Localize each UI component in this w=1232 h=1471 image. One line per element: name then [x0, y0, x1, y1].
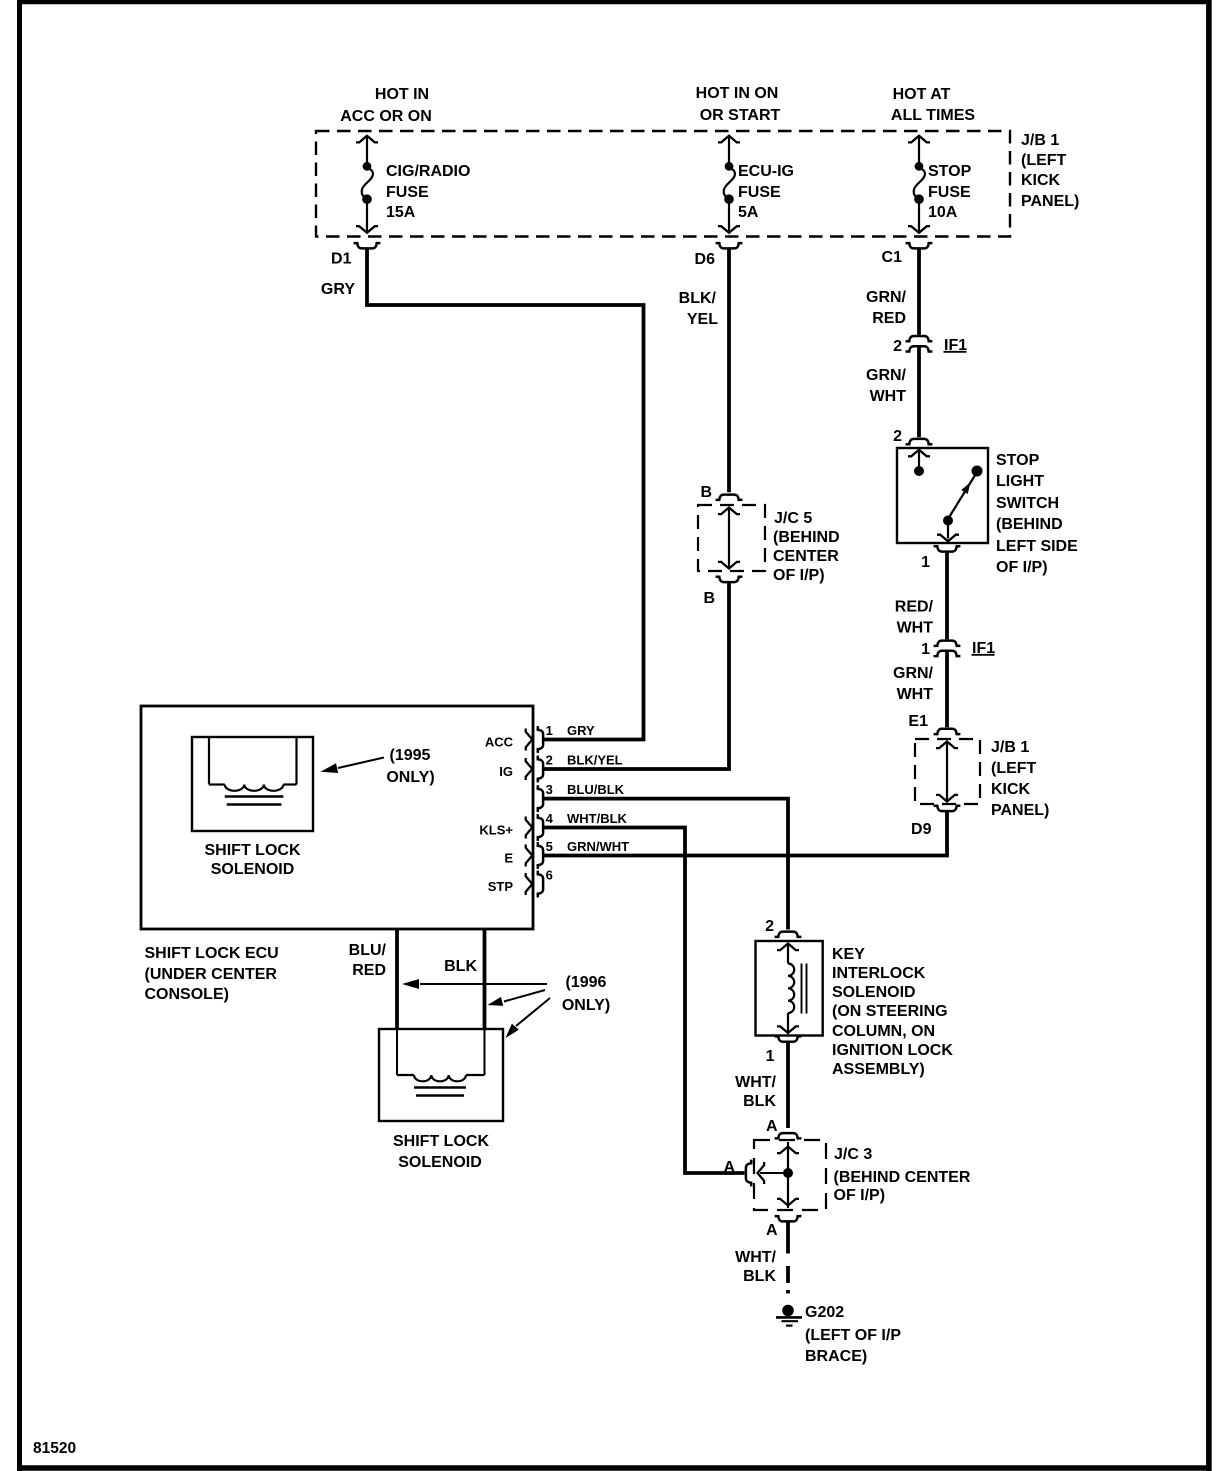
connector 2 key interlock — [775, 932, 802, 937]
svg-text:HOT AT: HOT AT — [893, 86, 951, 103]
svg-text:(LEFT: (LEFT — [1021, 152, 1067, 169]
label WHT/BLK upper — [735, 1074, 776, 1110]
svg-text:4: 4 — [546, 811, 554, 826]
svg-text:BLK: BLK — [743, 1093, 776, 1110]
svg-text:IG: IG — [499, 764, 513, 779]
label STOP LIGHT SWITCH (BEHIND LEFT SIDE OF I/P) — [996, 452, 1078, 576]
svg-text:KLS+: KLS+ — [479, 823, 513, 838]
svg-text:YEL: YEL — [687, 311, 718, 328]
ECU pin 5 — [504, 839, 629, 869]
note (1995 ONLY) with arrow — [319, 747, 434, 786]
shift lock solenoid (1995) — [192, 737, 313, 831]
svg-text:GRN/: GRN/ — [866, 367, 907, 384]
svg-text:(BEHIND: (BEHIND — [773, 529, 840, 546]
wire GRN/WHT D9 to ECU pin 5 — [544, 812, 948, 856]
connector A top of J/C 3 — [775, 1133, 802, 1138]
svg-text:(1996: (1996 — [566, 974, 607, 991]
svg-text:GRY: GRY — [321, 281, 355, 298]
junction connector J/C 5 — [698, 505, 765, 571]
svg-text:81520: 81520 — [33, 1440, 76, 1457]
svg-text:KICK: KICK — [991, 781, 1031, 798]
svg-text:BLK: BLK — [444, 958, 477, 975]
svg-text:STP: STP — [488, 879, 514, 894]
svg-text:LEFT SIDE: LEFT SIDE — [996, 538, 1078, 555]
svg-text:IGNITION LOCK: IGNITION LOCK — [832, 1042, 953, 1059]
label WHT/BLK lower — [735, 1249, 776, 1285]
label KEY INTERLOCK SOLENOID (ON STEERING COLUMN, ON IGNITION LOCK ASSEMBLY) — [832, 946, 953, 1078]
svg-text:E: E — [504, 851, 513, 866]
connector E1 — [934, 729, 961, 734]
svg-text:10A: 10A — [928, 204, 958, 221]
wire RED/WHT switch to IF1 — [945, 552, 949, 639]
net label HOT IN ON OR START — [696, 85, 781, 124]
svg-text:5: 5 — [546, 839, 553, 854]
inline connector IF1 (upper) — [906, 336, 933, 352]
connector D9 — [934, 806, 961, 811]
svg-text:D6: D6 — [695, 251, 716, 268]
svg-text:SOLENOID: SOLENOID — [832, 984, 916, 1001]
connector B top of J/C 5 — [716, 495, 743, 500]
svg-text:(BEHIND: (BEHIND — [996, 516, 1063, 533]
svg-text:2: 2 — [893, 338, 902, 355]
svg-text:3: 3 — [546, 782, 553, 797]
svg-text:FUSE: FUSE — [738, 184, 781, 201]
label G202 (LEFT OF I/P BRACE) — [805, 1304, 901, 1365]
connector 1 key interlock — [775, 1036, 802, 1041]
svg-text:ALL TIMES: ALL TIMES — [891, 107, 975, 124]
svg-text:1: 1 — [546, 723, 553, 738]
svg-text:SWITCH: SWITCH — [996, 495, 1059, 512]
note (1996 ONLY) with arrows — [402, 974, 610, 1041]
svg-text:A: A — [766, 1222, 778, 1239]
ECU pin 2 — [499, 752, 622, 782]
svg-text:J/B 1: J/B 1 — [991, 739, 1029, 756]
label J/B 1 (LEFT KICK PANEL) right — [991, 739, 1049, 819]
wire BLU/RED ECU to 1996 solenoid — [395, 930, 399, 1030]
ECU pin 4 — [479, 811, 627, 841]
svg-text:LIGHT: LIGHT — [996, 473, 1044, 490]
svg-text:OF I/P): OF I/P) — [773, 567, 825, 584]
svg-text:15A: 15A — [386, 204, 416, 221]
svg-text:(ON STEERING: (ON STEERING — [832, 1003, 948, 1020]
svg-text:1: 1 — [921, 641, 930, 658]
svg-text:WHT: WHT — [897, 686, 934, 703]
wire GRN/WHT IF1 to stop light switch — [917, 346, 921, 437]
net label HOT AT ALL TIMES — [891, 86, 975, 124]
label RED/WHT — [895, 599, 934, 637]
svg-text:J/B 1: J/B 1 — [1021, 132, 1059, 149]
wire GRN/RED C1 to IF1 — [917, 249, 921, 335]
svg-text:(UNDER CENTER: (UNDER CENTER — [145, 966, 278, 983]
svg-text:ONLY): ONLY) — [562, 997, 610, 1014]
svg-text:GRY: GRY — [567, 723, 595, 738]
svg-text:RED/: RED/ — [895, 599, 934, 616]
label CIG/RADIO FUSE 15A — [386, 163, 470, 221]
label STOP FUSE 10A — [928, 163, 972, 221]
svg-text:CONSOLE): CONSOLE) — [145, 986, 229, 1003]
label BLU/RED — [349, 942, 387, 979]
svg-text:1: 1 — [766, 1048, 775, 1065]
connector C1 — [906, 243, 933, 248]
svg-text:STOP: STOP — [928, 163, 972, 180]
label SHIFT LOCK SOLENOID (1996) — [393, 1133, 489, 1171]
svg-text:G202: G202 — [805, 1304, 844, 1321]
svg-text:5A: 5A — [738, 204, 759, 221]
ECU pin 1 — [485, 723, 595, 753]
svg-text:E1: E1 — [908, 713, 928, 730]
svg-text:BRACE): BRACE) — [805, 1348, 867, 1365]
svg-text:D9: D9 — [911, 821, 932, 838]
junction connector J/C 3 — [754, 1140, 826, 1210]
label J/B 1 (LEFT KICK PANEL) — [1021, 132, 1079, 210]
svg-text:ACC OR ON: ACC OR ON — [340, 108, 432, 125]
shift lock solenoid (1996) — [379, 1029, 503, 1121]
svg-text:WHT/: WHT/ — [735, 1249, 776, 1266]
svg-text:HOT IN ON: HOT IN ON — [696, 85, 779, 102]
svg-text:(LEFT: (LEFT — [991, 760, 1037, 777]
junction block J/B 1 fuse box — [316, 131, 1010, 237]
svg-text:RED: RED — [352, 962, 386, 979]
svg-text:WHT/: WHT/ — [735, 1074, 776, 1091]
svg-text:2: 2 — [765, 918, 774, 935]
ECU pin 3 — [538, 782, 625, 812]
label IF1 upper — [944, 337, 968, 354]
svg-text:KICK: KICK — [1021, 172, 1061, 189]
svg-text:ECU-IG: ECU-IG — [738, 163, 794, 180]
label J/C 3 (BEHIND CENTER OF I/P) — [834, 1146, 971, 1204]
inline connector IF1 (lower) — [934, 641, 961, 657]
svg-text:STOP: STOP — [996, 452, 1040, 469]
svg-text:2: 2 — [546, 752, 553, 767]
fuse CIG/RADIO 15A — [356, 136, 378, 233]
svg-text:CENTER: CENTER — [773, 548, 839, 565]
svg-text:SHIFT LOCK: SHIFT LOCK — [393, 1133, 489, 1150]
wire BLK/YEL J/C 5 to ECU pin 2 — [544, 583, 730, 769]
wire WHT/BLK J/C 3 to G202 — [786, 1222, 790, 1294]
label BLK/YEL — [679, 290, 719, 328]
svg-text:SHIFT LOCK: SHIFT LOCK — [205, 842, 301, 859]
svg-text:GRN/: GRN/ — [866, 289, 907, 306]
label GRN/RED — [866, 289, 907, 327]
svg-text:FUSE: FUSE — [928, 184, 971, 201]
svg-text:BLU/: BLU/ — [349, 942, 387, 959]
junction block J/B 1 (left kick panel) pass-through — [915, 739, 980, 804]
stop light switch — [897, 448, 988, 543]
svg-text:BLK/: BLK/ — [679, 290, 717, 307]
svg-text:BLK/YEL: BLK/YEL — [567, 752, 623, 767]
svg-text:WHT: WHT — [870, 388, 907, 405]
svg-text:(BEHIND CENTER: (BEHIND CENTER — [834, 1169, 971, 1186]
svg-text:D1: D1 — [331, 251, 352, 268]
svg-text:FUSE: FUSE — [386, 184, 429, 201]
label SHIFT LOCK SOLENOID (1995) — [205, 842, 301, 878]
wire BLU/BLK ECU pin 3 to key interlock solenoid — [544, 799, 789, 930]
svg-text:B: B — [700, 484, 712, 501]
svg-text:C1: C1 — [882, 249, 903, 266]
svg-text:OF I/P): OF I/P) — [996, 559, 1048, 576]
svg-text:PANEL): PANEL) — [991, 802, 1049, 819]
svg-text:HOT IN: HOT IN — [375, 86, 429, 103]
svg-text:A: A — [766, 1118, 778, 1135]
key interlock solenoid — [756, 941, 823, 1036]
label GRN/WHT lower — [893, 665, 934, 703]
wire GRY D1 to ECU pin 1 — [367, 249, 644, 740]
svg-text:OF I/P): OF I/P) — [834, 1187, 886, 1204]
svg-text:PANEL): PANEL) — [1021, 193, 1079, 210]
wire WHT/BLK ECU pin 4 to J/C 3 — [544, 828, 745, 1174]
label GRN/WHT upper — [866, 367, 907, 405]
svg-text:(1995: (1995 — [390, 747, 431, 764]
connector 2 stop light switch — [906, 439, 933, 444]
svg-text:SOLENOID: SOLENOID — [398, 1154, 482, 1171]
connector B bottom of J/C 5 — [716, 577, 743, 582]
svg-text:ONLY): ONLY) — [386, 769, 434, 786]
svg-text:A: A — [723, 1159, 735, 1176]
shift lock ECU box — [141, 706, 533, 929]
net label HOT IN ACC OR ON — [340, 86, 432, 125]
svg-text:BLK: BLK — [743, 1268, 776, 1285]
connector D6 — [716, 243, 743, 248]
svg-text:GRN/: GRN/ — [893, 665, 934, 682]
connector A left of J/C 3 — [746, 1160, 751, 1187]
svg-text:1: 1 — [921, 554, 930, 571]
svg-text:INTERLOCK: INTERLOCK — [832, 965, 926, 982]
svg-text:2: 2 — [893, 428, 902, 445]
connector A bottom of J/C 3 — [775, 1216, 802, 1221]
fuse ECU-IG 5A — [718, 136, 740, 233]
svg-text:B: B — [703, 590, 715, 607]
svg-text:COLUMN, ON: COLUMN, ON — [832, 1023, 935, 1040]
svg-text:WHT: WHT — [897, 620, 934, 637]
wire WHT/BLK key interlock to J/C 3 — [786, 1042, 790, 1128]
svg-text:SHIFT LOCK ECU: SHIFT LOCK ECU — [145, 945, 279, 962]
connector D1 — [354, 243, 381, 248]
label IF1 lower — [972, 640, 996, 657]
label ECU-IG FUSE 5A — [738, 163, 794, 221]
svg-text:OR START: OR START — [700, 107, 781, 124]
svg-text:ASSEMBLY): ASSEMBLY) — [832, 1061, 925, 1078]
wire BLK ECU to 1996 solenoid — [483, 930, 487, 1030]
wire GRN/WHT IF1 to E1 — [945, 651, 949, 727]
fuse STOP 10A — [908, 136, 930, 233]
ECU pin 6 — [488, 867, 553, 897]
svg-text:SOLENOID: SOLENOID — [211, 861, 295, 878]
svg-text:(LEFT OF I/P: (LEFT OF I/P — [805, 1327, 901, 1344]
svg-text:BLU/BLK: BLU/BLK — [567, 782, 625, 797]
svg-text:6: 6 — [546, 867, 553, 882]
svg-text:ACC: ACC — [485, 735, 514, 750]
svg-text:J/C 5: J/C 5 — [774, 510, 812, 527]
label SHIFT LOCK ECU (UNDER CENTER CONSOLE) — [145, 945, 279, 1003]
svg-text:J/C 3: J/C 3 — [834, 1146, 872, 1163]
svg-text:KEY: KEY — [832, 946, 865, 963]
wire BLK/YEL D6 to J/C 5 — [727, 249, 731, 492]
ground G202 — [776, 1305, 802, 1326]
connector 1 stop light switch — [934, 546, 961, 551]
svg-text:WHT/BLK: WHT/BLK — [567, 811, 628, 826]
svg-text:RED: RED — [872, 310, 906, 327]
svg-text:CIG/RADIO: CIG/RADIO — [386, 163, 470, 180]
svg-text:GRN/WHT: GRN/WHT — [567, 839, 629, 854]
label J/C 5 (BEHIND CENTER OF I/P) — [773, 510, 840, 584]
